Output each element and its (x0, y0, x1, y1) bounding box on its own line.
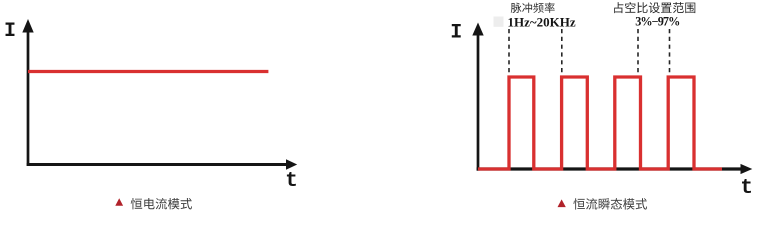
right caption text 恒流瞬态模式 (573, 198, 647, 210)
constant current red line (28, 70, 268, 73)
dashed marker line at pulse 2 rising edge (561, 29, 563, 75)
left caption triangle marker (115, 198, 123, 205)
svg-text:I: I (450, 22, 462, 45)
dashed marker line at pulse 1 rising edge (508, 29, 510, 75)
dashed marker line at pulse 3 falling edge (637, 29, 639, 75)
left x-axis (27, 159, 298, 169)
dashed marker line at pulse 4 rising edge (669, 29, 671, 75)
annotation text 占空比设置范围 (614, 2, 695, 13)
right caption triangle marker (558, 199, 566, 207)
right y-axis (472, 23, 483, 171)
right x-axis (477, 164, 753, 174)
pulse waveform (constant current transient) (478, 77, 722, 169)
svg-text:t: t (285, 170, 298, 193)
highlight box left of 1Hz (494, 17, 504, 27)
svg-text:I: I (4, 20, 16, 43)
svg-text:t: t (740, 177, 753, 200)
svg-text:3%−97%: 3%−97% (635, 15, 680, 29)
annotation text 脉冲频率 (511, 3, 555, 13)
left y-axis (22, 19, 33, 166)
svg-text:1Hz~20KHz: 1Hz~20KHz (508, 15, 576, 30)
left caption text 恒电流模式 (131, 198, 192, 209)
